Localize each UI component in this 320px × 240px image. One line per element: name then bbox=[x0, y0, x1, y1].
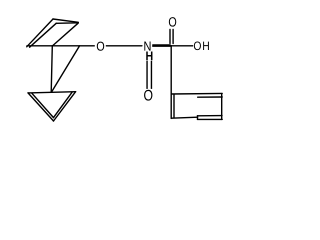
wire N=O double bond lines bbox=[146, 51, 148, 91]
wire steep outer A-B1 (double bond line 1) bbox=[27, 19, 53, 47]
wire ring top inner bbox=[198, 96, 223, 98]
wire bold N-C bond bbox=[153, 44, 170, 47]
wire C-OH bond bbox=[171, 45, 193, 47]
wire ring bottom fork upper bbox=[198, 115, 223, 117]
wire C down + ring left outer bbox=[170, 46, 172, 119]
wire vertical J-K bbox=[51, 46, 52, 93]
wire triangle left inner bbox=[32, 93, 54, 117]
wire baseline C-O bond bbox=[27, 45, 95, 47]
node N bbox=[143, 41, 152, 52]
wire steep inner A2-B2 (double bond line 2) bbox=[30, 23, 57, 47]
wire diag D-K bbox=[51, 46, 79, 93]
node O below N bbox=[143, 89, 155, 102]
wire triangle top bbox=[28, 92, 76, 93]
wire top upper B1-C bbox=[53, 19, 78, 22]
node O ether bbox=[95, 41, 106, 52]
wire C=O double bond bbox=[169, 30, 171, 44]
wire triangle right inner bbox=[54, 92, 73, 118]
wire ring bottom fork lower bbox=[198, 118, 223, 120]
wire triangle right outer bbox=[54, 92, 76, 121]
wire O-N bond bbox=[106, 45, 142, 47]
wire top lower B2-C bbox=[56, 22, 78, 25]
wire diag C-J bbox=[52, 23, 78, 46]
wire ring right bbox=[221, 94, 223, 120]
wire ring bottom main bbox=[171, 117, 197, 118]
node O carbonyl bbox=[167, 16, 178, 27]
node H on N bbox=[145, 51, 153, 61]
node OH bbox=[193, 41, 210, 52]
wire ring fork jog bbox=[197, 116, 199, 120]
wire triangle left outer bbox=[28, 93, 54, 121]
wire ring top outer bbox=[171, 92, 222, 95]
wire ring left inner bbox=[173, 95, 175, 118]
